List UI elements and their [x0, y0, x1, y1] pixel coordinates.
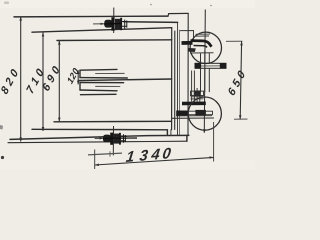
hanger flange mid line [201, 65, 220, 67]
fork rod line [79, 79, 172, 81]
bottom bracket bars [191, 97, 204, 99]
top rail stub (dark) [182, 41, 193, 45]
dim 1340 right extension [213, 122, 215, 162]
faint speck top right [150, 4, 152, 6]
door bottom edge [32, 128, 167, 131]
frame inner wall line 2 [179, 30, 181, 135]
bolt bar under line [176, 115, 212, 117]
dim 650 top extension [226, 40, 242, 42]
bottom bolt bar head (dark) [176, 111, 188, 116]
top rail wedge (dark) [188, 48, 196, 52]
stray mark left edge [0, 125, 3, 130]
fork top prong top line [80, 68, 117, 71]
door inner top line [57, 39, 172, 42]
top rail hook (dark) [191, 41, 212, 47]
dim 650 line [239, 41, 243, 119]
hanger flange [195, 63, 226, 68]
shell bottom right corner [186, 135, 188, 141]
label 1340 [125, 145, 172, 166]
shell inner top line [124, 21, 178, 24]
fork under line [81, 93, 117, 95]
hanger rods (lower) [201, 68, 210, 92]
bottom bracket rods [192, 71, 200, 102]
door right edge line 1 [171, 28, 173, 130]
paper background [0, 0, 255, 169]
shell top-right lip [168, 13, 188, 16]
dim 820 line [19, 17, 22, 142]
hanger rods (upper) [201, 51, 210, 64]
faint smudge top left [4, 2, 9, 5]
hanger flange left bolt [195, 63, 202, 69]
dim 1340 line [95, 156, 214, 166]
shell top line [14, 15, 168, 18]
door inner bottom line [54, 120, 172, 123]
door bottom corner vertical 1 [166, 130, 168, 136]
door bottom corner vertical 2 [170, 130, 172, 136]
dim 1340 left extension [94, 150, 96, 170]
top fastener body [104, 17, 127, 30]
fork bottom prong top line [80, 82, 124, 84]
faint speck right [210, 5, 212, 7]
top fastener leader arrow [93, 23, 105, 25]
shell bottom top edge [10, 135, 189, 139]
dim 690 line [58, 41, 61, 122]
door right edge line 2 [174, 31, 176, 130]
bottom bracket box [191, 91, 204, 95]
bottom small plate line [88, 153, 122, 155]
top rail lower line [190, 52, 214, 54]
bottom bolt bar nut (dark) [195, 110, 206, 115]
door top edge [32, 28, 172, 33]
bottom bracket pin (dark) [194, 91, 201, 97]
bottom small plate tick [109, 151, 111, 156]
fork bottom prong slot [96, 85, 121, 87]
fork top prong slot [96, 72, 125, 74]
bottom fastener body [103, 133, 137, 145]
fork bottom prong left edge [79, 83, 81, 91]
frame inner wall line 1 [177, 22, 179, 135]
rail bottom line [172, 117, 214, 119]
dim 710 line [42, 32, 45, 131]
dim 650 bottom extension [234, 118, 248, 120]
fork top prong bottom line [80, 77, 127, 79]
top bracket box [180, 31, 194, 41]
shell right edge [187, 13, 189, 135]
bottom fastener leader arrow [95, 137, 104, 139]
bottom roller detail circle [188, 97, 221, 130]
bottom fastener centerline [112, 126, 114, 155]
roller centerline [203, 10, 206, 134]
bottom rail section (dark) [182, 102, 206, 106]
top roller upper lines [196, 34, 211, 36]
stray dot bottom left [1, 156, 4, 159]
shell bottom line [8, 141, 187, 143]
fork bottom prong bottom line [80, 89, 117, 92]
fork top prong left edge [79, 70, 81, 77]
top roller detail circle [190, 32, 221, 63]
hanger flange right bolt [220, 63, 227, 69]
bottom bolt bar outline [179, 111, 213, 115]
top fastener centerline [113, 8, 115, 34]
fork assembly [79, 69, 172, 94]
dim 120 [77, 70, 80, 84]
